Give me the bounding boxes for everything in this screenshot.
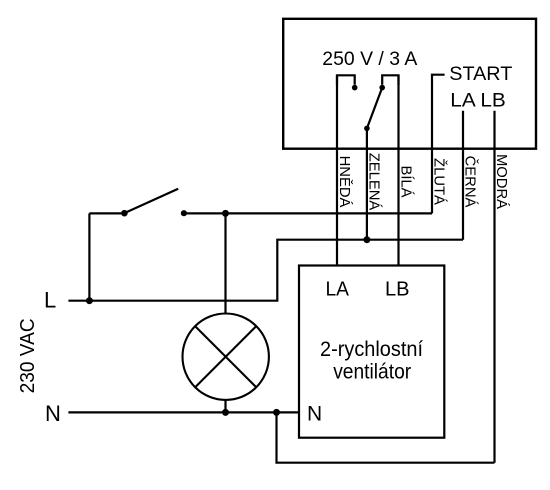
wire bottom rail to blue [277,412,495,462]
label LA terminal [325,277,349,300]
label LA LB [450,90,506,111]
label 2-rychlostni [320,337,423,361]
node lamp top junction [222,210,229,217]
svg-text:LA LB: LA LB [450,90,506,111]
wire yellow ZLUTA stub to START [432,75,445,214]
wire L line [68,240,463,301]
svg-text:ČERNÁ: ČERNÁ [462,156,479,208]
label 230 VAC [17,318,39,393]
svg-text:250 V / 3 A: 250 V / 3 A [322,49,417,70]
lamp E1 [183,314,269,400]
wire lamp top [224,213,226,313]
svg-text:230 VAC: 230 VAC [17,318,39,393]
wire lamp bottom [224,400,226,413]
node N to blue junction [273,409,280,416]
label ZELENÁ [365,153,382,211]
svg-text:N: N [307,403,322,426]
wire black CERNA vertical [462,111,464,240]
switch S1 line left segment [89,210,127,217]
node green junction [363,236,370,243]
node L junction [86,297,93,304]
label ŽLUTÁ [431,158,448,205]
svg-text:LA: LA [325,277,349,300]
svg-text:L: L [44,288,56,313]
relay contact K1 left fixed contact (brown) [337,75,358,90]
label BÍLÁ [397,165,414,197]
svg-text:2-rychlostní: 2-rychlostní [320,337,423,361]
svg-text:HNĚDÁ: HNĚDÁ [336,156,353,208]
label N [45,401,61,426]
svg-text:ventilátor: ventilátor [333,359,411,383]
wire brown HNEDA vertical [336,75,338,265]
node lamp bottom junction [222,409,229,416]
label HNĚDÁ [336,156,353,208]
wire switch to yellow [184,212,432,214]
wire switch feed vertical [88,213,90,300]
controller box U1 [283,19,536,149]
switch S1 blade [124,189,178,214]
svg-text:BÍLÁ: BÍLÁ [397,165,414,197]
label L [44,288,56,313]
wire N line [68,411,299,413]
svg-text:N: N [45,401,61,426]
relay contact K1 blade [364,88,382,132]
svg-text:ZELENÁ: ZELENÁ [365,153,382,211]
label ČERNÁ [462,156,479,208]
svg-text:START: START [449,64,512,85]
label LB terminal [385,277,410,300]
svg-text:ŽLUTÁ: ŽLUTÁ [431,158,448,205]
svg-text:LB: LB [385,277,410,300]
switch S1 right contact [181,210,187,216]
label 250 V / 3 A [322,49,417,70]
wire white BILA vertical [397,75,399,265]
svg-text:MODRÁ: MODRÁ [493,154,510,209]
wire green ZELENA vertical [366,128,368,239]
relay contact K1 right fixed contact (white) [379,75,398,90]
label ventilator [333,359,411,383]
label MODRÁ [493,154,510,209]
wire blue MODRA vertical [493,111,495,463]
label N terminal [307,403,322,426]
label START [449,64,512,85]
fan box M1 [299,266,444,438]
